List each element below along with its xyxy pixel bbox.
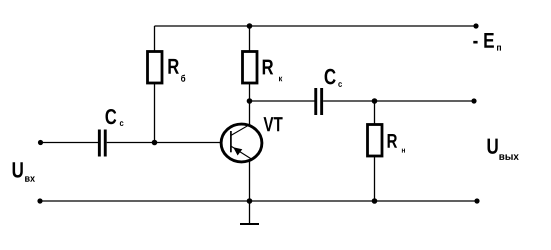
transistor VT emitter diagonal — [231, 146, 253, 160]
wire Rb bottom to base node — [154, 83, 156, 143]
node output / Rn junction — [372, 98, 378, 104]
resistor Rn — [368, 125, 383, 157]
label Uvyx output voltage — [488, 139, 519, 160]
label VT — [264, 117, 283, 131]
node output right terminal — [471, 98, 476, 103]
wire Rk top — [249, 26, 251, 52]
transistor VT collector diagonal — [231, 124, 251, 135]
transistor VT circle — [221, 124, 262, 162]
wire collector output — [250, 100, 315, 102]
label Rb — [168, 59, 185, 82]
label Cc input — [106, 109, 124, 126]
capacitor Cc output plate right — [320, 88, 323, 115]
wire Rn top — [374, 101, 376, 125]
wire input left — [41, 142, 99, 144]
transistor VT base bar — [230, 131, 232, 152]
capacitor Cc input plate left — [98, 130, 101, 157]
node bottom left terminal — [37, 198, 42, 203]
label Cc output — [325, 69, 342, 87]
wire top supply rail — [155, 25, 477, 27]
node junction top rail / Rk branch — [247, 23, 253, 29]
wire Rb top — [154, 26, 156, 52]
capacitor Cc input plate right — [104, 130, 107, 157]
node collector junction — [247, 98, 253, 104]
label Rn — [388, 134, 405, 153]
node input left terminal — [38, 140, 43, 145]
wire bottom rail — [40, 200, 477, 202]
resistor Rb — [148, 52, 163, 84]
wire base node to transistor — [107, 142, 221, 144]
label Rk — [263, 60, 283, 82]
label -Ep supply — [473, 33, 501, 51]
transistor VT emitter arrow (PNP, points to base) — [233, 147, 242, 155]
wire output right — [323, 100, 474, 102]
wire Rn bottom — [374, 156, 376, 201]
capacitor Cc output plate left — [314, 88, 317, 115]
wire emitter down — [249, 160, 251, 224]
node emitter / bottom rail junction — [247, 198, 253, 204]
node bottom right terminal — [474, 198, 479, 203]
node Rn / bottom rail junction — [372, 198, 378, 204]
label Uvx input voltage — [13, 162, 35, 181]
wire Rk bottom to collector node — [249, 83, 251, 125]
resistor Rk — [243, 52, 258, 84]
ground bar — [240, 223, 259, 225]
node top rail right terminal — [473, 23, 478, 28]
node base junction — [152, 140, 158, 146]
